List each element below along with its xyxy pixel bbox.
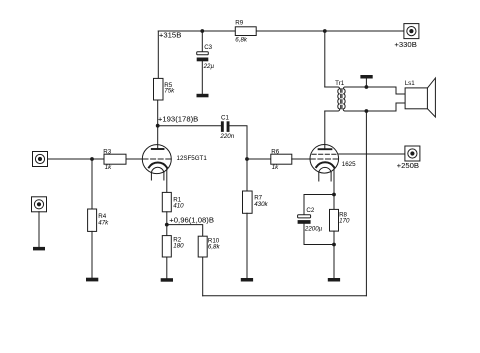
- U2 heater legs: [318, 172, 320, 181]
- terminal +250B: [405, 146, 420, 161]
- wire C1 to corner: [230, 126, 248, 159]
- svg-text:1625: 1625: [342, 161, 356, 168]
- wire R8 bottom to junction: [333, 231, 335, 278]
- node junction top rail / +330B drop: [323, 29, 327, 33]
- ground below C3: [197, 94, 209, 98]
- svg-text:410: 410: [173, 202, 184, 209]
- svg-text:+250B: +250B: [397, 161, 419, 170]
- resistor R5: [154, 78, 164, 100]
- svg-text:12SF5GT1: 12SF5GT1: [177, 155, 208, 162]
- svg-text:180: 180: [173, 243, 184, 250]
- node input junction: [90, 157, 94, 161]
- Tr1 core: [340, 89, 342, 110]
- svg-text:220n: 220n: [219, 133, 234, 140]
- beam tetrode U2 1625 envelope: [310, 145, 339, 174]
- resistor R8: [330, 209, 339, 231]
- wire input to junction: [48, 158, 105, 160]
- U1 grid (dashed): [143, 158, 171, 160]
- resistor R10: [198, 236, 207, 257]
- svg-text:R3: R3: [103, 149, 111, 156]
- wire R4 to ground: [91, 231, 93, 277]
- wire X2 to ground: [38, 212, 40, 247]
- wire primary bottom to U2 plate: [324, 111, 326, 148]
- wire C2 bottom to junction: [304, 224, 334, 245]
- wire C3 stem upper: [201, 31, 203, 52]
- wire R5 bottom to plate of U1: [157, 100, 159, 148]
- capacitor C3: [197, 52, 209, 55]
- resistor R2: [162, 236, 171, 257]
- node junction C2/R8 bottom: [332, 243, 336, 247]
- terminal +330B: [404, 24, 419, 39]
- svg-text:1k: 1k: [105, 164, 112, 171]
- svg-text:+315B: +315B: [159, 30, 181, 39]
- wire primary top lead: [325, 86, 338, 88]
- svg-text:C2: C2: [306, 207, 314, 214]
- node junction top rail / C3: [200, 29, 204, 33]
- wire junction down to R7: [246, 159, 248, 191]
- U1 plate: [152, 148, 164, 150]
- capacitor C2: [298, 215, 311, 218]
- svg-text:1k: 1k: [272, 164, 279, 171]
- speaker Ls1: [405, 80, 416, 87]
- input terminal X1: [33, 152, 48, 167]
- svg-text:170: 170: [339, 217, 350, 224]
- wire cathode junction to C2 branch: [304, 195, 334, 215]
- wire junction down to R4: [91, 159, 93, 209]
- wire R1 to junction: [166, 212, 168, 236]
- node secondary bottom junction: [365, 109, 369, 113]
- svg-text:Tr1: Tr1: [335, 80, 345, 87]
- capacitor C1: [221, 121, 224, 132]
- wire node to C1: [158, 125, 221, 127]
- resistor R1: [162, 192, 171, 211]
- wire R10 to bottom rail: [202, 257, 204, 296]
- Tr1 primary winding: [338, 87, 340, 111]
- U2 cathode arc: [316, 162, 334, 167]
- svg-text:430k: 430k: [254, 201, 268, 208]
- wire secondary top to speaker: [345, 87, 405, 94]
- svg-text:+330B: +330B: [394, 40, 416, 49]
- wire secondary bottom to speaker: [345, 103, 405, 111]
- wire bottom feedback rail: [203, 295, 367, 297]
- node junction C1/R6/R7: [245, 157, 249, 161]
- svg-text:+0,96(1,08)B: +0,96(1,08)B: [169, 216, 214, 225]
- ground below X2: [33, 247, 45, 251]
- ground below R7: [241, 278, 253, 282]
- wire R2 to ground: [166, 257, 168, 278]
- wire U2 cathode down: [333, 167, 335, 209]
- wire cathode junction to R10: [167, 225, 203, 237]
- svg-text:2200µ: 2200µ: [304, 226, 323, 233]
- svg-text:R6: R6: [271, 148, 279, 155]
- transformer Tr1 label: [335, 80, 345, 87]
- U1 heater legs: [150, 172, 152, 180]
- U2 plate: [319, 148, 332, 150]
- ground below R8: [328, 278, 340, 282]
- resistor R4: [88, 209, 97, 231]
- resistor R7: [243, 191, 253, 213]
- svg-text:22µ: 22µ: [203, 63, 215, 70]
- U1 cathode arc: [149, 162, 167, 167]
- node cathode junction U2: [332, 193, 336, 197]
- input terminal X2: [32, 197, 47, 212]
- wire R3 to grid U1: [126, 158, 143, 160]
- wire primary bottom lead: [325, 110, 338, 112]
- resistor R9: [235, 27, 256, 36]
- svg-text:Ls1: Ls1: [405, 80, 416, 87]
- Tr1 secondary winding: [343, 87, 345, 111]
- wire R6 to grid U2: [292, 158, 310, 160]
- wire R7 to ground: [246, 213, 248, 278]
- svg-text:6,8k: 6,8k: [208, 243, 221, 250]
- resistor R6: [271, 154, 292, 164]
- wire top rail left segment (+315B rail): [158, 30, 235, 32]
- ground below R4: [86, 278, 98, 282]
- node secondary top junction: [365, 85, 369, 89]
- svg-text:+193(178)B: +193(178)B: [158, 115, 198, 124]
- wire U1 cathode to R1: [166, 167, 168, 192]
- triode U1 12SF5GT1 envelope: [142, 145, 171, 174]
- node cathode junction +0,96(1,08)B: [165, 223, 169, 227]
- wire U2 screen to +250B: [338, 153, 405, 155]
- U2 heater arc: [319, 167, 331, 172]
- wire junction to R6: [247, 158, 271, 160]
- ground above secondary (inverted): [365, 78, 367, 87]
- U2 screen grid (dashed): [312, 153, 337, 155]
- svg-text:C1: C1: [221, 114, 229, 121]
- wire C3 stem lower: [201, 61, 203, 94]
- wire +330B drop to transformer primary top: [324, 31, 326, 87]
- svg-text:47k: 47k: [98, 220, 109, 227]
- node +315B label: [159, 30, 181, 39]
- U2 control grid (dashed): [310, 158, 338, 160]
- ground below R2: [161, 278, 173, 282]
- wire vertical +315B corner down to R5: [157, 31, 159, 78]
- U1 heater arc: [151, 167, 164, 172]
- svg-text:6,8k: 6,8k: [235, 37, 248, 44]
- wire top rail right segment to +330B: [256, 30, 404, 32]
- svg-text:C3: C3: [204, 44, 212, 51]
- wire feedback drop from secondary bottom: [365, 111, 367, 296]
- resistor R3: [104, 154, 126, 164]
- node +193(178)B junction: [156, 124, 160, 128]
- svg-text:75k: 75k: [164, 88, 175, 95]
- svg-text:R9: R9: [235, 20, 243, 27]
